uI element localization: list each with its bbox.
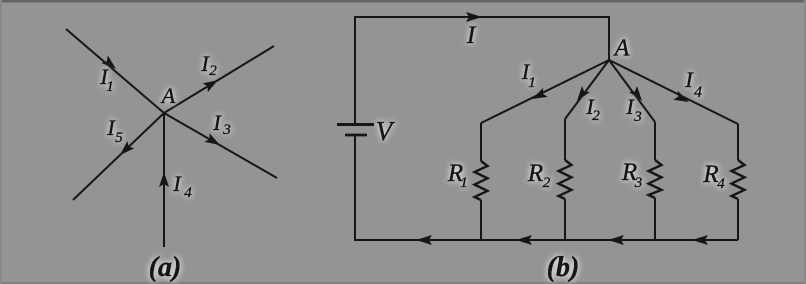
svg-text:2: 2 <box>592 108 600 124</box>
svg-text:2: 2 <box>209 63 217 79</box>
svg-text:4: 4 <box>184 185 192 201</box>
svg-text:A: A <box>613 36 630 62</box>
svg-text:4: 4 <box>694 84 702 101</box>
svg-text:(a): (a) <box>149 252 182 283</box>
svg-text:5: 5 <box>115 130 123 146</box>
svg-text:R: R <box>702 161 718 188</box>
svg-text:1: 1 <box>528 75 536 91</box>
svg-text:3: 3 <box>634 175 643 191</box>
svg-text:(b): (b) <box>547 252 580 283</box>
svg-text:3: 3 <box>222 122 231 138</box>
svg-text:2: 2 <box>543 175 551 191</box>
svg-text:1: 1 <box>460 175 468 191</box>
svg-text:A: A <box>160 83 176 108</box>
svg-text:3: 3 <box>633 109 642 125</box>
svg-text:4: 4 <box>717 176 725 192</box>
svg-text:R: R <box>527 160 543 187</box>
svg-text:1: 1 <box>106 79 114 95</box>
